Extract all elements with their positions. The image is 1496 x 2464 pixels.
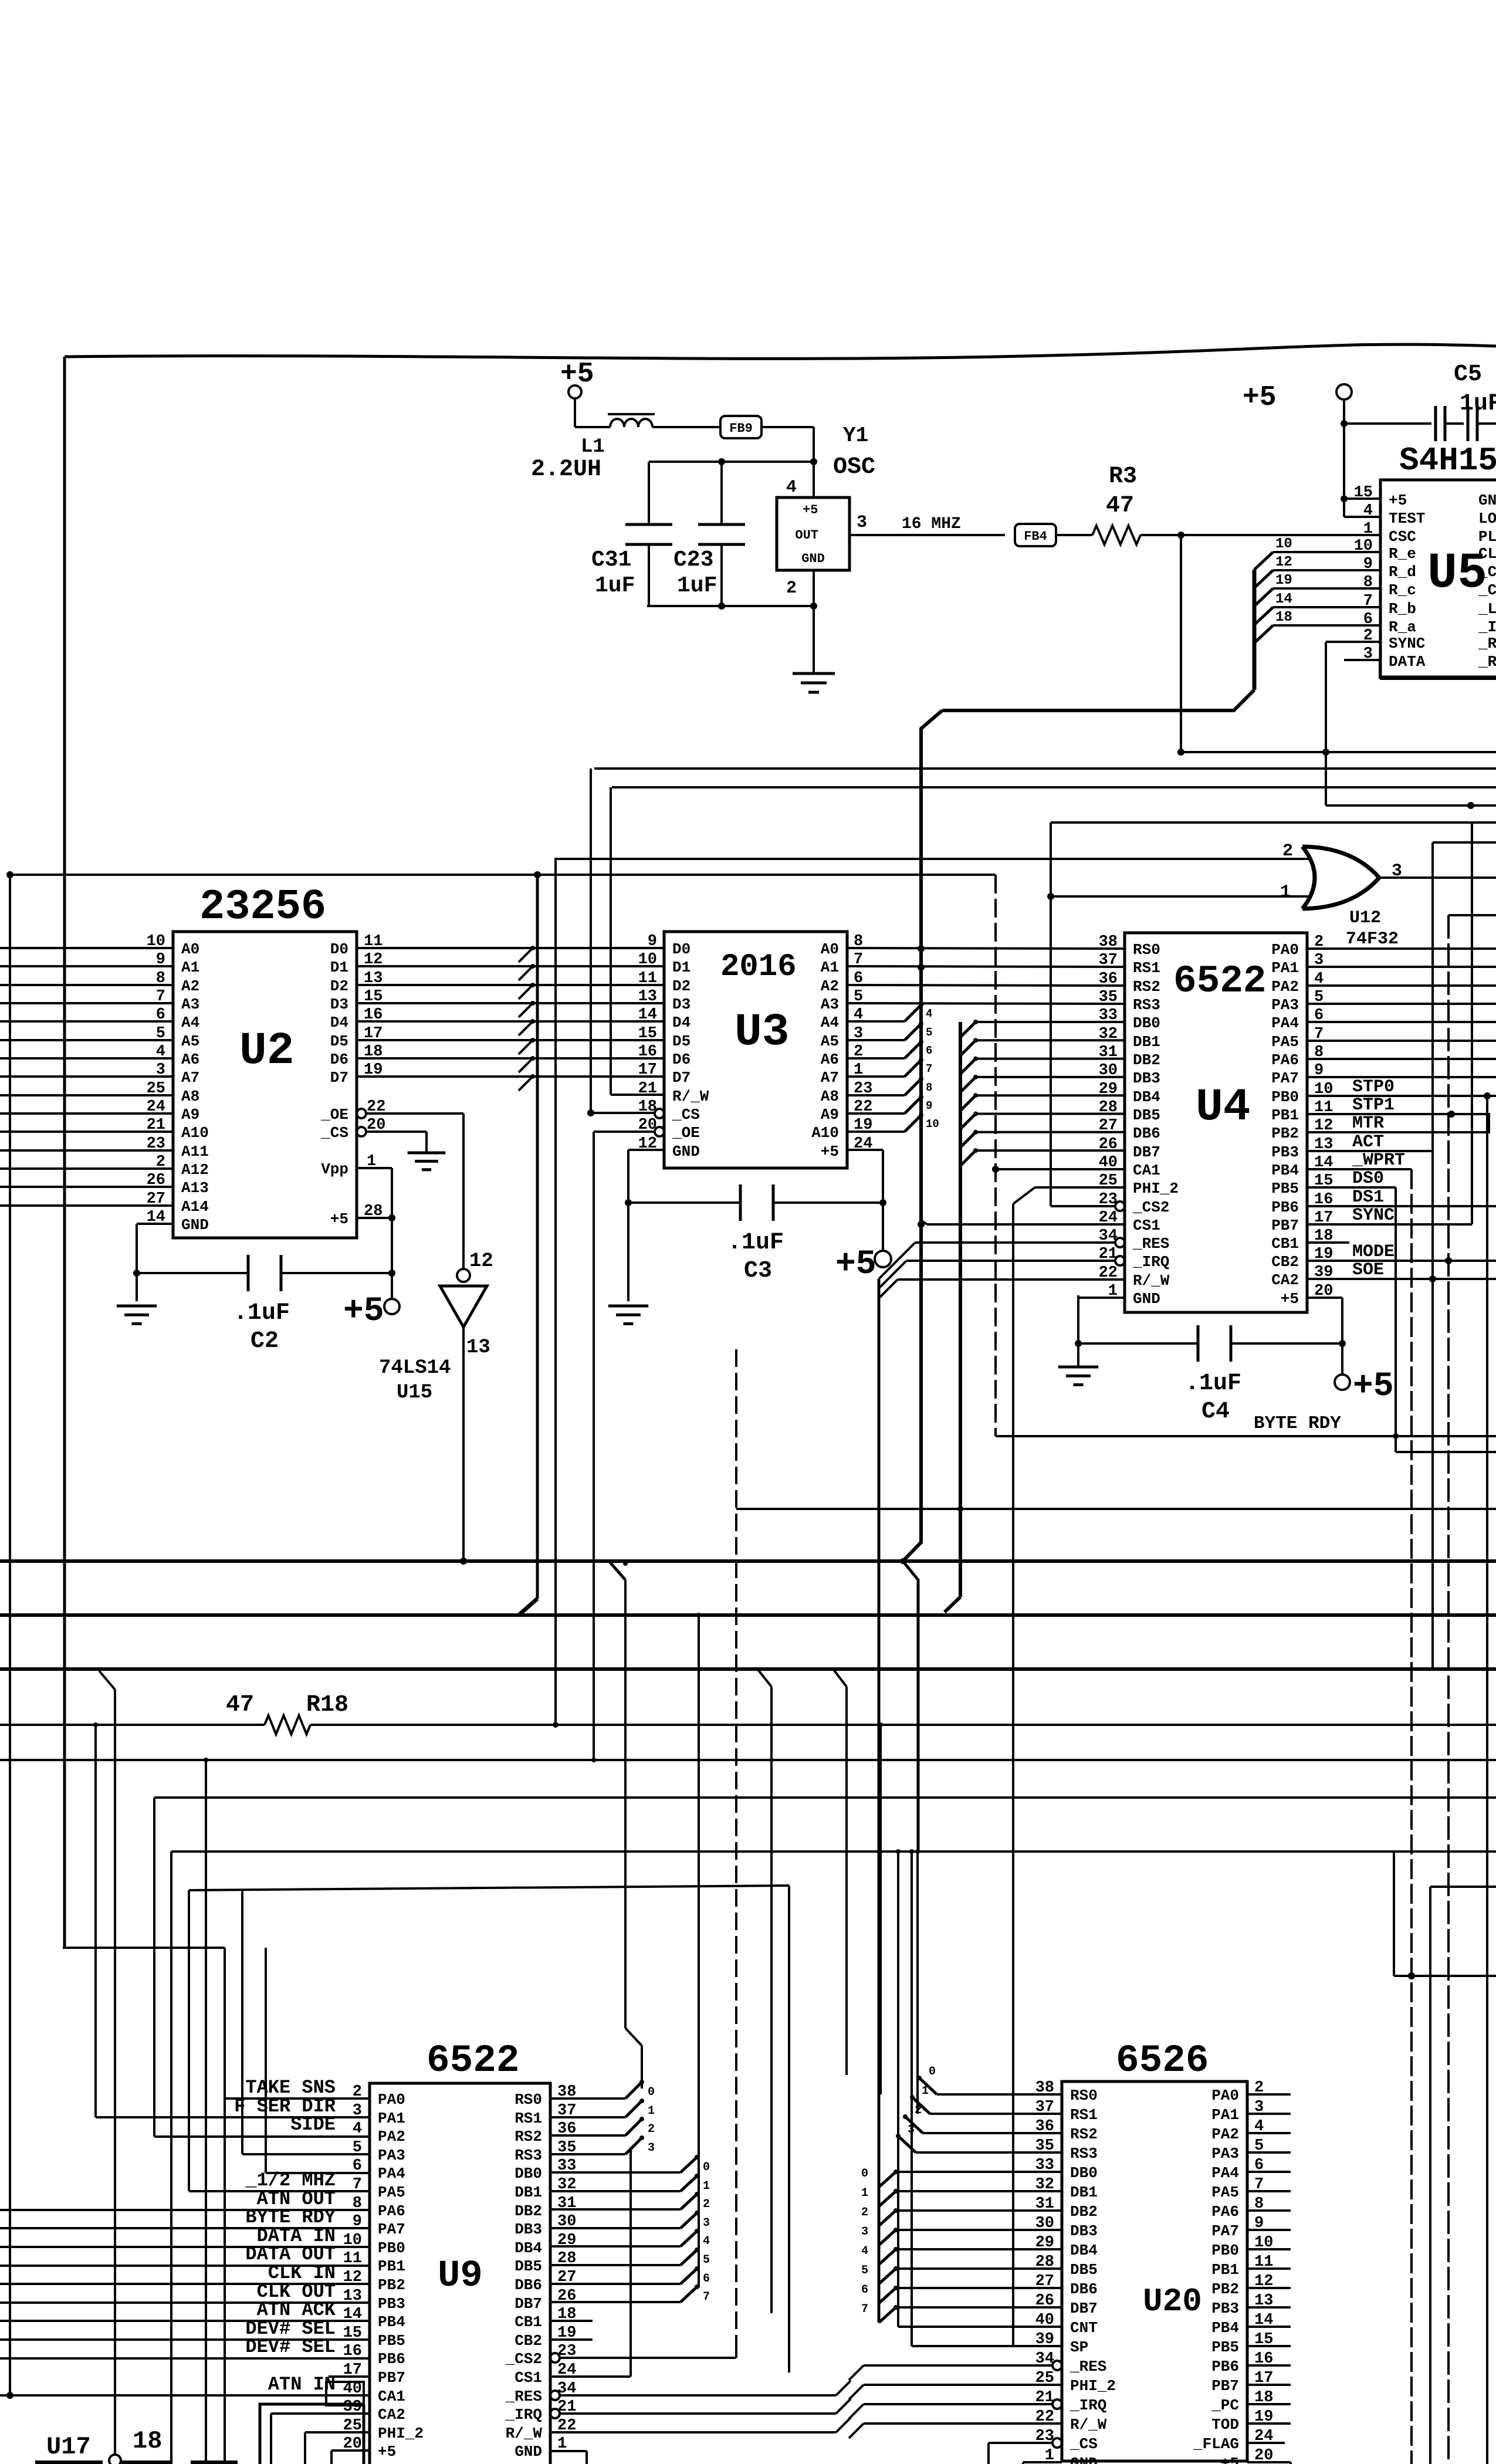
wire CSC node down-left loop [1180,535,1182,752]
svg-text:MTR: MTR [1352,1113,1384,1133]
vertical x2379 lower segment [1393,1852,1395,1976]
svg-text:DB4: DB4 [1133,1088,1160,1106]
vertical x1791 to U4 CS2 [1050,823,1052,1206]
svg-text:+5: +5 [1243,382,1277,414]
Y1 ground stem and symbol [813,606,815,673]
svg-text:SP: SP [1070,2338,1088,2356]
svg-text:10: 10 [1275,536,1292,552]
U20 R/_W wire [864,2422,1062,2425]
U20 GND wire [1023,2461,1062,2463]
svg-text:D6: D6 [672,1051,691,1068]
wire DB1 (U20) [896,2190,1062,2192]
svg-text:PA0: PA0 [378,2091,405,2108]
U20 CNT wire [898,2326,1062,2328]
svg-text:A11: A11 [181,1143,209,1160]
partial IC box (bottom, cut off) [260,2404,364,2464]
bus line y3064 [154,1796,1496,1799]
wire DB1 to U4 [976,1039,1125,1041]
svg-text:7: 7 [703,2290,710,2304]
svg-text:U20: U20 [1143,2283,1202,2320]
svg-text:C31: C31 [591,547,631,573]
vertical x1094 RS feed (U9) [641,2080,643,2089]
wire CLK IN to off-page left [0,2283,370,2285]
svg-text:+5: +5 [330,1210,348,1228]
svg-text:R_d: R_d [1389,563,1416,581]
vertical x1564 [916,1852,919,2114]
vertical x1012 (OE net down) [593,1132,595,1760]
bus line y1342 [612,786,1496,788]
wire CB1 stub [1307,1241,1349,1244]
wire address A0 to off-page left [0,947,173,949]
ground (U4) [1058,1366,1098,1369]
svg-text:A7: A7 [181,1069,199,1087]
wire PA4 (U4) [1307,1021,1496,1023]
wire PA6 (U20) stub [1247,2209,1291,2212]
svg-text:74LS14: 74LS14 [379,1357,451,1379]
svg-text:D0: D0 [672,940,691,958]
U20 _IRQ wire [864,2403,1052,2405]
wire DB5 to U4 [976,1113,1125,1115]
svg-text:A4: A4 [821,1014,839,1031]
U5 pin 4 wire [1344,516,1380,518]
svg-text:2016: 2016 [720,949,797,985]
wire data D4 U2 to U3 [357,1020,664,1023]
svg-text:3: 3 [861,2225,868,2239]
svg-text:_WPRT: _WPRT [1352,1150,1405,1170]
wire PB7 stub [329,2375,370,2378]
vertical x1697 [994,875,997,1435]
svg-text:+5: +5 [343,1292,384,1331]
wire PA7 (U20) stub [1247,2229,1291,2231]
vertical x292 [170,1852,172,2464]
wire PA6 (U4) [1307,1058,1496,1060]
svg-text:D6: D6 [330,1051,348,1068]
svg-text:PB1: PB1 [1211,2261,1239,2279]
svg-text:PB2: PB2 [378,2276,405,2294]
svg-text:A9: A9 [181,1106,199,1123]
svg-text:CA2: CA2 [1271,1271,1299,1289]
U4 +5 pin wire [1307,1297,1342,1299]
svg-text:_IRQ: _IRQ [505,2406,542,2424]
U15 output wire to bus [462,1327,465,1561]
svg-text:6: 6 [861,2283,868,2297]
+5 terminal (U4) [1335,1375,1350,1390]
svg-text:15: 15 [638,1025,657,1043]
svg-text:1uF: 1uF [595,573,635,598]
svg-text:PA7: PA7 [1271,1069,1299,1087]
svg-text:DB4: DB4 [515,2239,542,2257]
wire DB7 (U20) [896,2306,1062,2309]
bus line y3000 [0,1759,1496,1761]
svg-text:DB5: DB5 [1070,2261,1098,2279]
svg-text:D7: D7 [672,1069,691,1087]
wire PA7 (U4) [1307,1076,1496,1078]
svg-text:PA3: PA3 [1271,996,1299,1014]
wire PA5 (U20) stub [1247,2190,1291,2192]
svg-text:14: 14 [1275,591,1292,607]
wire data D3 U2 to U3 [357,1002,664,1004]
svg-text:A3: A3 [181,996,199,1013]
svg-text:+5: +5 [803,503,818,517]
svg-text:CA2: CA2 [378,2406,405,2424]
wire A4 U3 to bus [847,1020,905,1023]
wire node to caps rail [649,461,814,463]
svg-text:DB0: DB0 [1070,2164,1098,2182]
svg-text:PA1: PA1 [1271,959,1299,977]
svg-text:_IRQ: _IRQ [1069,2397,1106,2414]
svg-text:DS0: DS0 [1352,1169,1384,1189]
svg-text:OSC: OSC [833,454,875,480]
wire BYTE RDY to off-page left [0,2227,370,2229]
svg-text:RS1: RS1 [1133,959,1160,977]
svg-text:_C: _C [1478,581,1496,599]
svg-text:A1: A1 [181,959,199,976]
svg-text:CB2: CB2 [515,2332,542,2350]
bus line y1528 (OR gate input 1) [1051,895,1309,898]
svg-text:DB2: DB2 [1133,1051,1160,1069]
U20 _RES wire [864,2364,1052,2367]
wire data D6 U2 to U3 [357,1057,664,1060]
svg-text:DB6: DB6 [515,2276,542,2294]
svg-text:A9: A9 [821,1106,839,1123]
wire A10 U3 to bus [847,1131,905,1133]
svg-text:13: 13 [466,1336,490,1359]
vertical x1501 [879,1725,882,2094]
svg-text:DB1: DB1 [1133,1033,1160,1051]
wire TAKE SNS [225,2097,370,2100]
svg-text:R/_W: R/_W [1070,2416,1107,2433]
wire DB3 (U20) [896,2229,1062,2231]
U2 GND pin wire [137,1223,173,1225]
svg-text:LO: LO [1478,510,1496,527]
svg-text:TOD: TOD [1211,2416,1239,2433]
U5 DATA pin wire [1344,659,1380,661]
svg-text:_IRQ: _IRQ [1132,1253,1169,1271]
bus line y3156 [171,1850,1496,1853]
svg-text:D0: D0 [330,940,348,958]
svg-text:4: 4 [926,1007,932,1020]
svg-text:16 MHZ: 16 MHZ [902,515,961,533]
wire DB6 (U20) [896,2287,1062,2289]
svg-text:DATA: DATA [1389,653,1426,671]
bus line y1310 [594,767,1496,770]
svg-text:PB1: PB1 [378,2257,405,2275]
wire A0 U3 to U4 [847,948,1125,949]
vertical x947 [554,858,557,1725]
svg-text:DB3: DB3 [1070,2222,1098,2240]
wire A8 U3 to bus [847,1094,905,1096]
wire PB2 (U20) stub [1247,2287,1291,2289]
svg-text:C3: C3 [744,1258,772,1284]
svg-text:+5: +5 [1281,1290,1299,1308]
svg-text:R_a: R_a [1389,618,1416,636]
svg-text:17: 17 [638,1061,657,1079]
svg-text:R/_W: R/_W [672,1088,709,1105]
svg-text:4: 4 [861,2245,868,2258]
svg-text:_CS: _CS [320,1124,348,1142]
wire DB0 to U4 [976,1021,1125,1023]
svg-text:PA7: PA7 [378,2221,405,2238]
svg-text:GN: GN [1478,492,1496,509]
wire PA5 (U4) [1307,1040,1496,1042]
U12 output wire [1379,876,1496,879]
bus line y2448 [994,1435,997,1436]
svg-text:+5: +5 [378,2443,396,2460]
svg-text:3: 3 [857,513,867,533]
svg-text:PA3: PA3 [1211,2145,1239,2162]
svg-text:D4: D4 [330,1014,348,1031]
wire DEV# SEL to off-page left [0,2357,370,2360]
bus line y2753 heavy [0,1613,1496,1617]
bus line y1464 (OR gate input 2) [556,858,1309,860]
svg-text:RS2: RS2 [515,2128,542,2145]
svg-text:DB3: DB3 [1133,1069,1160,1087]
wire F SER DIR [96,2116,370,2118]
wire _PC (U20) stub [1247,2403,1291,2405]
wire +5 (U20) [1247,2461,1291,2463]
svg-text:_R: _R [1478,653,1496,671]
svg-text:A2: A2 [821,977,839,995]
svg-text:GND: GND [181,1216,209,1234]
wire MODE [1307,1260,1496,1262]
svg-text:+5: +5 [1221,2455,1239,2464]
svg-text:D3: D3 [672,996,691,1013]
svg-text:36: 36 [1099,970,1118,988]
svg-text:C2: C2 [251,1328,279,1355]
U4 GND wire [1078,1297,1125,1299]
vertical x163 [94,1725,97,2117]
terminal circle x196 bottom [109,2455,121,2464]
wire RS2 (U20) [923,2132,1062,2134]
ferrite bead FB4 [1015,524,1056,546]
wire PA2 (U4) [1307,984,1496,987]
wire SYNC (U4) [1307,1223,1472,1226]
svg-text:SYNC: SYNC [1389,635,1425,652]
wire STP0 [1307,1095,1496,1097]
svg-text:PA6: PA6 [1211,2203,1239,2221]
capacitor C31 1uF [648,462,650,524]
svg-text:A1: A1 [821,959,839,976]
U3 R/W wire [611,1094,664,1096]
svg-text:PA6: PA6 [378,2202,405,2220]
svg-text:3: 3 [703,2216,710,2230]
svg-text:4: 4 [703,2235,710,2248]
wire address A9 to off-page left [0,1112,173,1115]
svg-text:PA5: PA5 [1211,2184,1239,2201]
U5 input wire pin row 972 [1273,569,1380,571]
U3 _CS wire [591,1112,655,1114]
wire data D1 U2 to U3 [357,965,664,967]
svg-text:C23: C23 [673,547,713,573]
wire R3 to U5 OSC pin, junction node [1140,534,1380,536]
U4 _RES wire [915,1241,1115,1244]
svg-text:8: 8 [926,1081,932,1094]
svg-text:L1: L1 [581,436,605,458]
svg-text:D5: D5 [672,1033,691,1050]
svg-text:7: 7 [861,2303,868,2316]
svg-text:GND: GND [801,551,825,566]
U3 GND wire [628,1149,664,1151]
svg-text:0: 0 [861,2167,868,2181]
svg-text:DB2: DB2 [515,2202,542,2220]
svg-text:CNT: CNT [1070,2319,1098,2337]
svg-text:_CS2: _CS2 [1132,1199,1169,1216]
svg-text:A3: A3 [821,996,839,1013]
wire _WPRT [1307,1168,1412,1170]
svg-text:23256: 23256 [199,883,326,931]
svg-text:PB7: PB7 [1211,2377,1239,2395]
svg-text:Vpp: Vpp [321,1160,348,1178]
svg-text:PB7: PB7 [378,2369,405,2387]
svg-text:6: 6 [703,2272,710,2286]
IC U3 2016 RAM [664,932,847,1168]
wire DB4 (U9) [550,2245,681,2248]
svg-text:MODE: MODE [1352,1242,1395,1262]
wire RS0 (U9) [550,2097,625,2100]
resistor R3 47 [1056,534,1092,536]
svg-text:35: 35 [1099,989,1118,1006]
svg-text:1: 1 [1280,882,1291,902]
svg-text:D2: D2 [672,977,691,995]
svg-text:A12: A12 [181,1161,209,1179]
svg-text:DS1: DS1 [1352,1187,1384,1207]
vertical x1498 [878,1279,881,2323]
svg-text:PA2: PA2 [1271,978,1299,996]
bus line y1491 BYTE RDY net [10,874,996,876]
wire RS1 (U9) [550,2116,625,2118]
svg-text:1: 1 [861,2187,868,2200]
wire DB7 to U4 [976,1149,1125,1152]
svg-text:13: 13 [638,988,657,1006]
svg-text:PB3: PB3 [1211,2300,1239,2317]
wire DB4 (U20) [896,2248,1062,2250]
wire PA0 (U4) [1307,947,1496,950]
svg-text:CL: CL [1478,545,1496,563]
svg-text:STP0: STP0 [1352,1077,1395,1097]
svg-text:0: 0 [648,2086,655,2099]
wire DS0 [1307,1186,1396,1189]
svg-text:20: 20 [1314,1282,1333,1300]
IC U4 6522 VIA [1125,933,1307,1312]
svg-text:RS0: RS0 [1133,941,1160,959]
svg-text:9: 9 [926,1099,932,1112]
U4 CA1 wire [996,1168,1125,1170]
svg-text:FB4: FB4 [1024,529,1047,544]
svg-text:D3: D3 [330,996,348,1013]
wire address A6 to off-page left [0,1057,173,1060]
svg-text:CA1: CA1 [378,2388,405,2405]
wire data D5 U2 to U3 [357,1039,664,1041]
svg-text:A0: A0 [181,940,199,958]
svg-text:A10: A10 [181,1124,209,1142]
svg-text:DB2: DB2 [1070,2203,1098,2221]
svg-text:PB7: PB7 [1271,1217,1299,1234]
svg-text:DB1: DB1 [1070,2184,1098,2201]
svg-text:U2: U2 [239,1025,295,1077]
svg-text:47: 47 [226,1692,254,1718]
svg-text:_R: _R [1478,635,1496,652]
bus line y2845 heavy [0,1667,1496,1671]
vertical x17 [9,875,11,2395]
U9 GND wire [550,2450,587,2452]
svg-text:18: 18 [1275,610,1292,625]
U20 _CS wire [989,2442,1052,2444]
wire address A10 to off-page left [0,1131,173,1133]
vertical x351 [205,1760,207,2464]
wire DB6 (U9) [550,2283,681,2285]
svg-text:2: 2 [1282,841,1293,861]
svg-text:74F32: 74F32 [1346,929,1399,949]
svg-text:10: 10 [926,1118,939,1131]
svg-text:D5: D5 [330,1033,348,1050]
svg-text:TEST: TEST [1389,510,1425,527]
svg-text:C5: C5 [1454,361,1482,388]
svg-text:PHI_2: PHI_2 [1133,1180,1179,1197]
svg-text:37: 37 [1099,952,1118,969]
svg-text:PB4: PB4 [1271,1162,1299,1179]
svg-text:A10: A10 [811,1124,839,1142]
PHI_2 vertical x1727 [1012,1204,1014,2346]
svg-text:PA3: PA3 [378,2147,405,2164]
svg-text:STP1: STP1 [1352,1095,1395,1115]
svg-text:RS1: RS1 [515,2110,542,2127]
svg-text:GND: GND [515,2443,542,2460]
svg-text:_OE: _OE [672,1124,700,1142]
svg-text:PB5: PB5 [1271,1180,1299,1197]
wire PB4 (U20) stub [1247,2326,1291,2328]
svg-text:RS2: RS2 [1070,2125,1098,2143]
wire DB3 (U9) [550,2227,681,2229]
svg-text:PB4: PB4 [378,2313,405,2331]
ground (U3) [608,1305,648,1308]
wire PA4 stub [266,2172,370,2174]
svg-text:U17: U17 [46,2433,91,2461]
svg-text:14: 14 [638,1006,657,1024]
svg-text:A6: A6 [821,1051,839,1068]
svg-text:+5: +5 [1389,492,1407,509]
svg-text:18: 18 [133,2427,162,2455]
svg-text:OUT: OUT [795,528,818,543]
svg-text:U3: U3 [735,1007,790,1058]
svg-text:R/_W: R/_W [506,2425,543,2442]
vertical x916 [536,875,539,1599]
vertical x2509 (SYNC to top) [1471,823,1473,1224]
wire address A12 to off-page left [0,1167,173,1170]
wire A2 U3 to U4 [847,985,1125,986]
wire PB5 (U20) stub [1247,2345,1291,2347]
svg-text:1uF: 1uF [677,573,717,598]
svg-text:1: 1 [922,2084,929,2098]
vertical x2535 (STP0 net) [1486,1096,1488,2464]
svg-text:A13: A13 [181,1179,209,1197]
wire SIDE [154,2135,370,2138]
svg-text:_CS: _CS [672,1106,700,1123]
vertical x1443 [833,1669,847,1687]
svg-text:PA5: PA5 [1271,1033,1299,1051]
vertical x1345 [788,1886,790,2372]
svg-text:SYNC: SYNC [1352,1206,1395,1226]
capacitor C4 .1uF [1078,1342,1198,1345]
svg-text:_RES: _RES [505,2388,542,2405]
svg-text:+5: +5 [1353,1368,1394,1406]
vertical x2438 lower right [1429,1887,1431,2464]
DS0 vertical and jog x2379 [1393,1433,1399,1439]
wire DB7 (U9) [550,2301,681,2303]
U20 PHI_2 wire [864,2384,1062,2386]
U5 input wire pin row 941 [1273,551,1380,553]
wire FB9 to osc node [761,426,814,428]
svg-text:SOE: SOE [1352,1260,1384,1280]
